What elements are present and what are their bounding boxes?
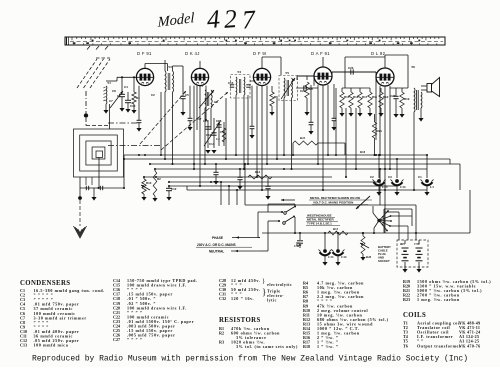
bus gang 1	[169, 181, 379, 183]
wire V5 top to T6	[384, 55, 386, 68]
loop antenna left lead	[79, 177, 81, 188]
resistor R11	[369, 88, 371, 92]
svg-text:C11: C11	[220, 130, 226, 134]
svg-text:R10: R10	[146, 181, 152, 185]
valve V5 pins	[379, 86, 381, 155]
svg-text:C27: C27	[390, 94, 396, 98]
svg-text:C4: C4	[124, 85, 128, 89]
resistor R19	[401, 88, 403, 92]
mains switch pole 1	[284, 212, 287, 215]
svg-text:D F 9I: D F 9I	[253, 51, 267, 56]
svg-text:C8: C8	[112, 89, 116, 93]
svg-text:C16: C16	[250, 79, 256, 83]
wire extra drop 2	[225, 98, 227, 159]
bottom rail	[262, 232, 470, 234]
svg-text:1 meg. ½w. carbon: 1 meg. ½w. carbon	[417, 297, 460, 302]
capacitor C12	[168, 186, 170, 188]
wire T3 legs	[204, 108, 206, 164]
svg-text:C1: C1	[418, 175, 422, 179]
bus gang 2	[169, 185, 397, 187]
bus LT line	[155, 168, 427, 170]
wire R15-R17 top	[342, 87, 370, 89]
svg-text:SOCKET: SOCKET	[378, 259, 390, 263]
bus bias	[144, 176, 332, 178]
gang link dashed diagonal 1	[140, 91, 186, 144]
wire switch top	[294, 204, 296, 206]
svg-text:R13: R13	[333, 227, 339, 231]
trimmer C7 arrow	[110, 91, 123, 108]
ground R1	[131, 110, 136, 114]
svg-text:VK 470-76: VK 470-76	[459, 343, 480, 348]
svg-text:RESISTORS: RESISTORS	[219, 317, 261, 324]
svg-text:C12: C12	[171, 187, 177, 191]
wire phase in	[258, 237, 260, 239]
svg-text:230V A.C. OR D.C. MAINS: 230V A.C. OR D.C. MAINS	[197, 243, 236, 247]
loop antenna (frame aerial)	[74, 129, 124, 177]
valve V3 pins	[256, 86, 258, 177]
ground R17	[357, 113, 362, 117]
valve V2 DK91 envelope	[191, 68, 208, 85]
svg-text:R18: R18	[360, 150, 366, 154]
svg-text:C2: C2	[151, 93, 155, 97]
mains switch pole 2	[283, 222, 286, 225]
trimmer arrow T5	[281, 78, 295, 99]
svg-text:R17: R17	[362, 95, 368, 99]
wire extra drop 7	[345, 108, 347, 177]
svg-text:C13: C13	[20, 343, 27, 348]
capacitor C27	[395, 88, 397, 96]
dial scale	[65, 37, 445, 45]
earth symbol chevrons	[74, 226, 87, 238]
svg-text:R15: R15	[344, 95, 350, 99]
rotary selector switch	[377, 219, 380, 222]
svg-text:COILS: COILS	[403, 312, 426, 319]
aerial rod (dashed)	[77, 59, 97, 88]
wire rotary to rail	[374, 221, 379, 229]
svg-text:C32: C32	[219, 296, 226, 301]
valve V5 DL92 electrodes	[380, 74, 383, 81]
title "Model 427" handwritten	[157, 10, 195, 31]
aerial lead-in	[85, 91, 87, 113]
svg-text:}: }	[262, 278, 265, 285]
svg-text:METAL RECTIFIER SHOWN ON 230: METAL RECTIFIER SHOWN ON 230	[310, 196, 361, 200]
svg-text:C33: C33	[382, 185, 388, 189]
wire V4 top	[322, 57, 324, 67]
svg-text:VOLT D.C. MAINS POSITION: VOLT D.C. MAINS POSITION	[313, 201, 353, 205]
loop antenna inner lead	[98, 158, 100, 189]
wire HT box outer	[245, 204, 416, 206]
wire grid cap V4-V5	[345, 56, 385, 58]
gang link dash B	[108, 145, 161, 147]
wire extra drop 1	[160, 92, 162, 155]
wire loop to bus	[123, 155, 125, 188]
wire extra drop 4	[276, 98, 278, 159]
svg-text:C34: C34	[341, 255, 347, 259]
wire T1 to loop	[109, 104, 111, 129]
ground R20	[360, 257, 365, 261]
bus HT line	[124, 154, 427, 156]
svg-text:NEUTRAL: NEUTRAL	[209, 250, 224, 254]
svg-text:120 ” 16v.: 120 ” 16v.	[231, 296, 254, 301]
svg-text:T6: T6	[411, 65, 415, 69]
wire neutral in	[260, 250, 268, 252]
junction dots on buses	[144, 154, 146, 156]
resistor R17	[359, 88, 361, 92]
resistor R6	[271, 86, 273, 92]
svg-text:C23: C23	[348, 66, 354, 70]
wire T5 legs	[283, 98, 285, 155]
resistor R20 variable	[362, 233, 364, 236]
svg-text:90V: 90V	[400, 242, 405, 246]
svg-text:R14: R14	[255, 170, 261, 174]
loop tap leads	[85, 177, 87, 185]
svg-text:R11: R11	[372, 95, 378, 99]
arrow to switch	[281, 199, 295, 201]
resistor R8	[306, 76, 308, 80]
svg-text:C15: C15	[228, 81, 234, 85]
svg-text:3% tol. (in same sets only): 3% tol. (in same sets only)	[236, 344, 298, 349]
capacitor C15	[230, 84, 234, 86]
ground loop	[93, 188, 95, 197]
wire extra pin V3	[251, 86, 253, 126]
gang capacitor C1	[425, 179, 429, 183]
wire T2 left	[164, 92, 166, 159]
wire T6 to speaker	[421, 85, 427, 87]
wire plate feed	[292, 143, 294, 155]
wire gang feeds	[378, 155, 380, 178]
ground C5	[180, 112, 185, 116]
svg-text:C4: C4	[216, 137, 220, 141]
wire drop to switch box 2	[228, 186, 230, 205]
svg-text:Output transformer: Output transformer	[417, 343, 461, 348]
svg-text:lytic: lytic	[267, 298, 277, 303]
valve V3 DF91 electrodes	[257, 74, 260, 81]
valve V4 DAF91 electrodes	[318, 73, 321, 80]
wire extra drop 3	[247, 95, 249, 164]
wire switch to battery	[398, 212, 400, 240]
svg-text:C1: C1	[117, 94, 121, 98]
wire diode link	[297, 75, 314, 77]
wire extra drop 6	[355, 108, 357, 169]
svg-text:T3: T3	[199, 84, 203, 88]
capacitor C5	[182, 92, 184, 96]
svg-text:D F 91: D F 91	[137, 51, 152, 56]
svg-text:D A F 91: D A F 91	[311, 51, 330, 56]
bus screen line	[124, 158, 450, 160]
svg-text:R20: R20	[366, 255, 372, 259]
electro cap C33	[323, 249, 327, 253]
svg-text:C3: C3	[388, 175, 392, 179]
ground R11	[367, 113, 372, 117]
capacitor C1b	[99, 186, 101, 190]
junction dots extra	[138, 154, 140, 156]
capacitor C1a	[85, 186, 87, 190]
wire loop bottom	[80, 187, 124, 189]
svg-text:R16: R16	[353, 95, 359, 99]
ground C27	[393, 114, 398, 118]
capacitor C26b	[267, 178, 269, 186]
wire T2 top	[164, 60, 166, 71]
ground C1	[119, 108, 124, 112]
coupling cap C23	[332, 71, 376, 73]
svg-text:C18: C18	[216, 119, 222, 123]
ground C12	[166, 197, 171, 201]
svg-text:100 mmfd mica: 100 mmfd mica	[34, 343, 69, 348]
resistor R21 lower	[374, 114, 376, 122]
capacitor C21	[333, 84, 335, 118]
capacitor C9	[189, 86, 191, 118]
capacitor C22	[296, 87, 318, 89]
ground R16	[348, 113, 353, 117]
svg-text:R1: R1	[136, 96, 140, 100]
trimmer C3 arrow	[199, 90, 214, 108]
svg-text:R2: R2	[219, 331, 224, 336]
svg-text:C5: C5	[185, 93, 189, 97]
capacitor C16	[246, 84, 250, 86]
svg-text:C10: C10	[130, 104, 136, 108]
wire T4 legs	[235, 95, 237, 155]
wire R19 top	[390, 87, 408, 89]
ground padder	[205, 150, 210, 154]
wire V3 top	[261, 57, 263, 68]
dial cord hatches	[87, 46, 90, 50]
capacitor C24	[310, 85, 312, 122]
bus gang 3	[187, 189, 427, 191]
valve V4 DAF91 envelope	[314, 67, 332, 85]
svg-text:1 ” ½w. ”: 1 ” ½w. ”	[317, 344, 338, 349]
svg-text:R3: R3	[219, 340, 224, 345]
capacitor C1	[121, 90, 123, 94]
wire V2 top	[199, 61, 201, 68]
wire drop to switch box 3	[236, 190, 238, 205]
wire rotary feed	[373, 213, 379, 221]
capacitor C13	[239, 169, 241, 177]
mains NEUTRAL arrow	[231, 250, 260, 252]
note arrow	[356, 196, 370, 209]
wire rotary contacts out	[391, 215, 413, 217]
terminal earth	[79, 188, 81, 196]
svg-text:R19: R19	[404, 97, 410, 101]
svg-text:C3: C3	[214, 100, 218, 104]
ground R2	[152, 198, 157, 202]
svg-text:C22: C22	[300, 89, 306, 93]
resistor R1	[133, 86, 135, 92]
ground T1	[103, 110, 108, 114]
resistor R23 horizontal	[293, 141, 318, 145]
valve V4 pins	[317, 85, 319, 164]
svg-text:T6: T6	[403, 343, 408, 348]
svg-text:D L 92: D L 92	[371, 51, 386, 56]
valve V1 DF91 envelope	[136, 68, 153, 85]
valve V5 DL92 envelope	[376, 68, 394, 86]
svg-text:C19: C19	[206, 133, 212, 137]
wire T1 grid link	[117, 76, 137, 78]
valve V3 DF91 envelope	[253, 68, 270, 85]
svg-text:Reproduced by Radio Museum wit: Reproduced by Radio Museum with permissi…	[32, 355, 468, 364]
capacitor C20	[215, 164, 217, 172]
title number "427"	[206, 2, 257, 37]
gang capacitor C2	[377, 179, 381, 183]
resistor R13 horizontal	[328, 231, 348, 235]
valve V1 DF91 electrodes	[140, 74, 143, 81]
battery box	[397, 240, 428, 267]
svg-text:R12: R12	[383, 95, 389, 99]
bus AVC	[150, 163, 460, 165]
oscillator padder cluster	[207, 120, 209, 148]
valve V2 DK91 electrodes	[195, 74, 198, 81]
wire box left	[383, 209, 385, 233]
wire extra drop 5	[335, 88, 337, 155]
AVC line (dash-dot)	[108, 122, 139, 124]
capacitor C10	[127, 92, 129, 100]
svg-text:R21: R21	[377, 129, 383, 133]
ground R19	[399, 114, 404, 118]
wire T2 right	[172, 92, 174, 164]
wire T6 bottom	[413, 112, 415, 190]
ground R6	[269, 112, 274, 116]
wire battery tops	[404, 240, 406, 244]
svg-text:PHASE: PHASE	[212, 236, 223, 240]
svg-text:T1: T1	[107, 81, 111, 85]
svg-text:C27: C27	[113, 337, 120, 342]
svg-text:C14: C14	[209, 142, 215, 146]
svg-text:4: 4	[206, 4, 221, 34]
svg-text:C33: C33	[328, 255, 334, 259]
svg-text:R23: R23	[403, 297, 410, 302]
svg-text:2: 2	[223, 4, 238, 34]
ground R8	[304, 112, 309, 116]
ground C10	[125, 109, 130, 113]
wire extra pin V2	[196, 86, 198, 130]
svg-text:TYPE 14.B.1.SE.1: TYPE 14.B.1.SE.1	[307, 222, 332, 226]
resistor R15	[341, 88, 343, 92]
svg-text:L3: L3	[430, 185, 434, 189]
wire battery grounds	[404, 262, 406, 269]
ground R15	[339, 113, 344, 117]
svg-text:T2: T2	[168, 65, 172, 69]
wire HT box inner	[384, 208, 412, 210]
gang link dashed diagonal 2	[161, 92, 228, 150]
svg-text:D K 4J: D K 4J	[185, 51, 200, 56]
ground R10	[141, 197, 146, 201]
wire phase bus	[258, 211, 282, 213]
svg-text:CONDENSERS: CONDENSERS	[20, 280, 70, 287]
wire screen V5	[375, 86, 377, 140]
gang capacitor C3	[395, 179, 399, 183]
svg-text:” ” ” ”: ” ” ” ”	[127, 337, 142, 342]
svg-text:R2: R2	[157, 177, 161, 181]
wire neutral link	[268, 220, 279, 222]
resistor R14 (C.T.) horizontal	[248, 175, 272, 179]
wire drop to switch box 1	[220, 182, 222, 205]
svg-text:R18: R18	[303, 344, 310, 349]
valve V2 pins	[193, 86, 195, 169]
svg-text:T4: T4	[237, 70, 241, 74]
capacitor C40	[299, 233, 301, 240]
wire caps to rail	[324, 233, 326, 249]
svg-text:}: }	[262, 287, 266, 297]
wire extra pin V1	[138, 86, 140, 120]
svg-text:R23: R23	[300, 136, 306, 140]
svg-text:R6: R6	[274, 95, 278, 99]
svg-text:electrolytic: electrolytic	[267, 282, 292, 287]
electro cap C34	[336, 249, 340, 253]
volume control R10	[143, 177, 145, 179]
svg-text:C40: C40	[296, 243, 302, 247]
resistor R16	[350, 88, 352, 92]
mains PHASE arrow	[232, 237, 260, 239]
wire V1 top	[144, 64, 146, 69]
svg-text:C2: C2	[370, 175, 374, 179]
loudspeaker	[427, 84, 432, 93]
svg-text:C7: C7	[109, 99, 113, 103]
wire switch down	[294, 217, 296, 233]
svg-text:T5: T5	[285, 71, 289, 75]
resistor R12	[380, 88, 382, 92]
svg-text:C34: C34	[400, 185, 406, 189]
resistor R2	[153, 171, 157, 196]
ground R12	[378, 113, 383, 117]
heater rail	[296, 242, 300, 244]
